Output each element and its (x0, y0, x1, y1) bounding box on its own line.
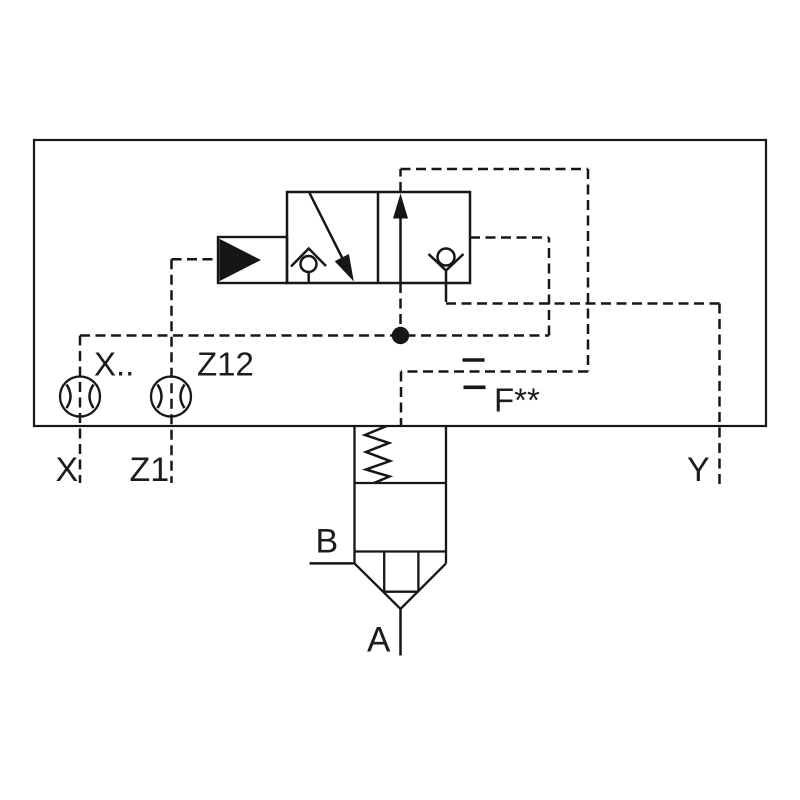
pilot line wire: Z12 to actuator (172, 258, 220, 261)
svg-text:Y: Y (687, 451, 710, 489)
svg-text:Z12: Z12 (197, 346, 254, 383)
wire: drop to cartridge (400, 372, 403, 426)
wire: CV2 outlet horizontal (470, 236, 549, 239)
wire: run to cartridge spring chamber (401, 370, 588, 373)
flow arrow (closed position diagonal) (310, 193, 354, 282)
wire: Y drop (718, 304, 721, 488)
pilot valve V1 body (2-position) (287, 192, 470, 283)
wire: valve outlet up (399, 169, 402, 192)
wire: port B stub (310, 562, 355, 565)
wire: riser from line to valve port (399, 283, 402, 336)
svg-text:B: B (316, 523, 339, 561)
svg-text:Z1: Z1 (130, 451, 170, 489)
svg-text:A: A (367, 621, 391, 660)
orifice F** (463, 360, 486, 387)
wire: branch up to CV2 outlet (548, 238, 551, 336)
pilot line wire: Z12 riser (170, 259, 173, 483)
svg-text:X..: X.. (94, 346, 134, 383)
cartridge spring (365, 426, 390, 483)
cartridge insert outline (355, 426, 447, 609)
svg-text:F**: F** (494, 382, 540, 419)
junction node (392, 327, 409, 344)
pilot line wire: X to junction to CV2 branch (80, 334, 549, 337)
cartridge poppet seat (384, 552, 418, 592)
measuring port X.. (60, 377, 100, 417)
svg-text:X: X (56, 451, 79, 489)
manifold block outline (34, 140, 766, 426)
pilot actuator (hydraulic pilot, solid triangle) (218, 237, 287, 283)
wire: port A stub (399, 609, 402, 656)
wire: drain to Y (446, 302, 720, 305)
pilot line wire: X riser (79, 336, 82, 484)
check valve CV1 in left position (291, 249, 326, 284)
check valve CV2 in right position (429, 249, 464, 303)
flow arrow (open position, up) (393, 194, 408, 284)
wire: top run to the right (401, 168, 589, 171)
measuring port Z12 (151, 377, 191, 417)
wire: right drop (587, 169, 590, 372)
